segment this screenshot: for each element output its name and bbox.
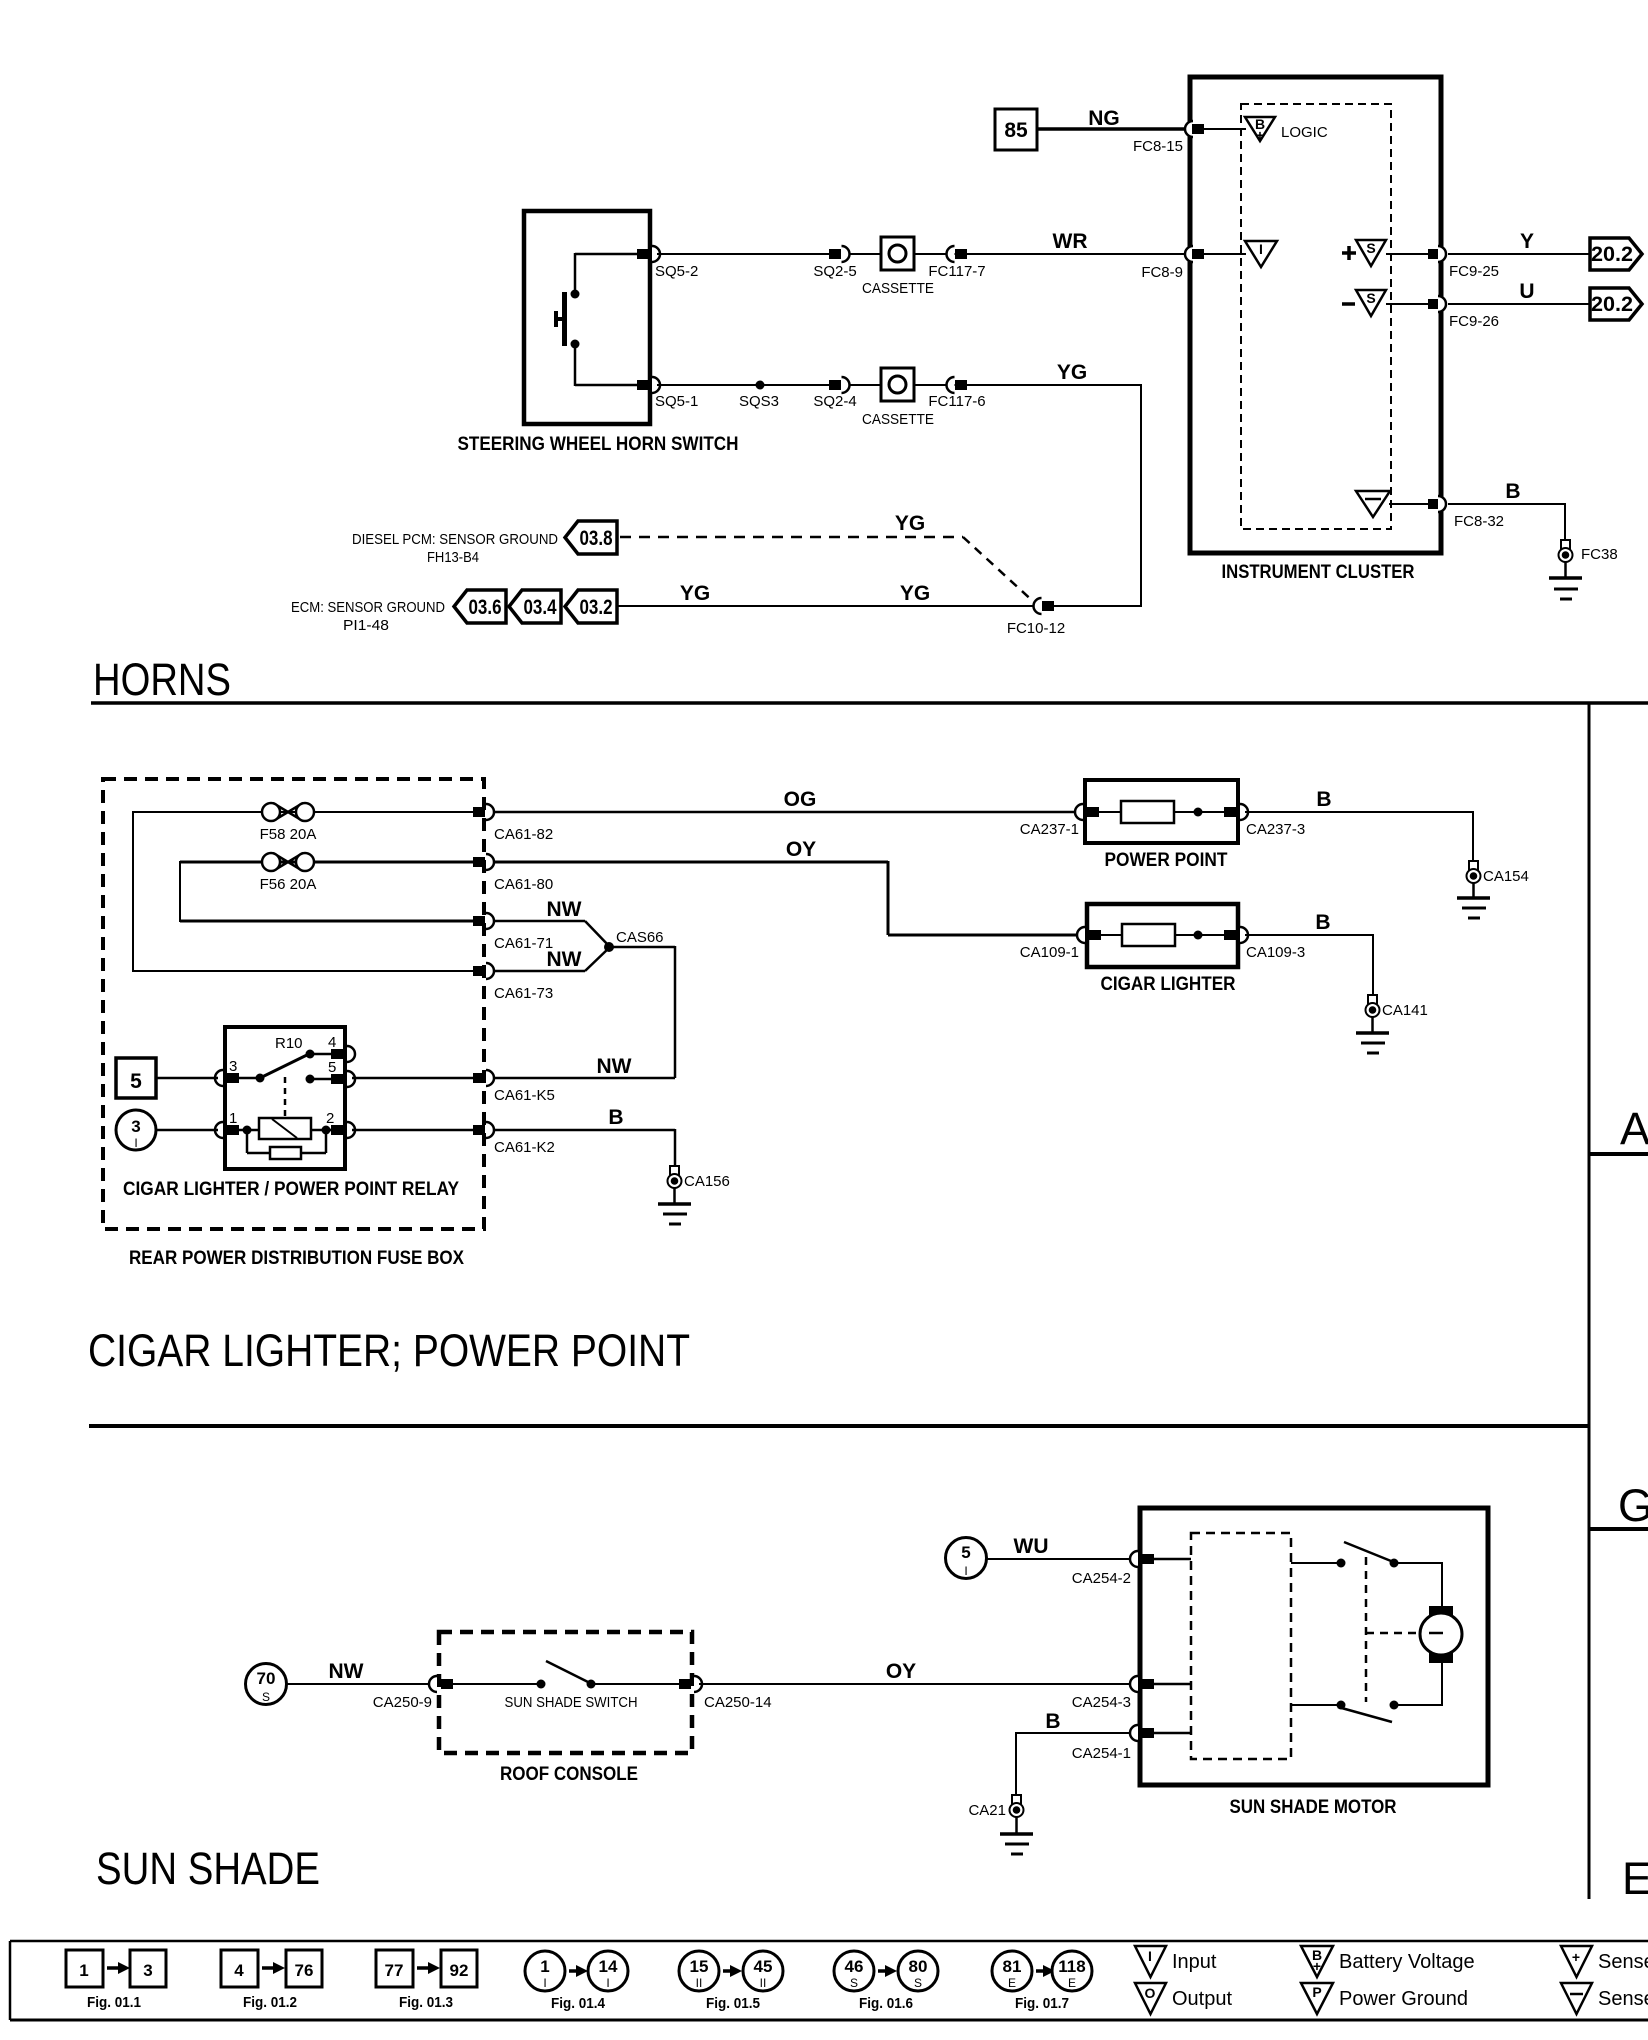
svg-text:80: 80: [909, 1957, 928, 1976]
relay parallel resistor: [247, 1130, 326, 1159]
svg-text:CA237-1: CA237-1: [1020, 821, 1079, 838]
svg-text:Sense: Sense: [1598, 1951, 1648, 1973]
wire FC10-12 to YG riser: [1054, 605, 1141, 607]
svg-text:14: 14: [599, 1957, 618, 1976]
svg-text:YG: YG: [680, 582, 710, 605]
svg-text:B: B: [1505, 480, 1520, 503]
sense minus symbol: [1342, 290, 1386, 316]
wire NW lower to CAS66: [493, 947, 610, 971]
svg-text:20.2: 20.2: [1591, 293, 1633, 316]
motor linkage dashed: [1366, 1557, 1421, 1702]
svg-text:CA250-14: CA250-14: [704, 1694, 772, 1711]
zone label A: [1589, 1103, 1648, 1154]
svg-text:ECM: SENSOR GROUND: ECM: SENSOR GROUND: [291, 599, 445, 616]
svg-text:CASSETTE: CASSETTE: [862, 280, 934, 297]
svg-text:1: 1: [540, 1957, 549, 1976]
steering wheel horn switch box: [524, 211, 650, 424]
pin FC117-7: [928, 246, 985, 280]
relay pin 1: [215, 1110, 259, 1138]
wire YG from 03.2 to FC10-12: [617, 582, 1034, 606]
svg-text:FC8-9: FC8-9: [1141, 264, 1183, 281]
svg-text:STEERING WHEEL HORN SWITCH: STEERING WHEEL HORN SWITCH: [458, 434, 739, 455]
svg-text:YG: YG: [895, 512, 925, 535]
pin CA61-73: [473, 963, 553, 1002]
svg-text:DIESEL PCM: SENSOR GROUND: DIESEL PCM: SENSOR GROUND: [352, 531, 558, 548]
horn switch internal wiring: [575, 253, 638, 386]
svg-text:SUN SHADE SWITCH: SUN SHADE SWITCH: [505, 1694, 638, 1711]
svg-text:E: E: [1008, 1976, 1016, 1990]
wire circle 3 to relay pin 1: [156, 1129, 218, 1132]
svg-text:FC9-25: FC9-25: [1449, 263, 1499, 280]
svg-text:O: O: [1145, 1985, 1156, 2001]
svg-text:Y: Y: [1520, 230, 1534, 253]
svg-text:POWER POINT: POWER POINT: [1105, 850, 1228, 871]
svg-text:CA109-3: CA109-3: [1246, 944, 1305, 961]
svg-text:I: I: [606, 1976, 609, 1990]
wire relay pin 2 to CA61-K2: [352, 1129, 473, 1132]
motor switch lower: [1291, 1656, 1442, 1722]
svg-text:+: +: [1572, 1949, 1580, 1965]
ground eyelet CA141: [1366, 995, 1428, 1019]
sun shade motor box: [1140, 1508, 1488, 1785]
svg-text:CA61-71: CA61-71: [494, 935, 553, 952]
ground CA154: [1457, 883, 1490, 918]
power point element: [1099, 801, 1224, 823]
svg-text:LOGIC: LOGIC: [1281, 124, 1328, 141]
svg-text:4: 4: [328, 1034, 336, 1051]
wire cassette to FC117-7: [914, 253, 955, 255]
roof console box (dashed): [439, 1632, 692, 1753]
svg-text:S: S: [262, 1690, 270, 1704]
pin SQ5-2: [637, 246, 698, 280]
svg-text:CA61-73: CA61-73: [494, 985, 553, 1002]
power point box: [1085, 780, 1238, 843]
svg-text:A: A: [1620, 1103, 1648, 1154]
wire NW to roof console: [287, 1660, 434, 1684]
legend battery voltage symbol: [1301, 1946, 1475, 1977]
legend power ground symbol: [1301, 1983, 1468, 2014]
splice circle 5: [946, 1538, 987, 1579]
svg-text:Fig. 01.5: Fig. 01.5: [706, 1995, 760, 2012]
svg-text:Fig. 01.1: Fig. 01.1: [87, 1994, 141, 2011]
motor internal dashed module: [1191, 1533, 1291, 1759]
right margin border: [1588, 703, 1591, 1899]
svg-text:NW: NW: [597, 1055, 632, 1078]
svg-text:CA61-82: CA61-82: [494, 826, 553, 843]
pin SQ2-5: [813, 246, 856, 280]
wire sense plus to FC9-25: [1386, 253, 1429, 255]
svg-text:FC117-7: FC117-7: [928, 263, 985, 280]
pin FC117-6: [928, 377, 985, 410]
svg-text:SQ5-1: SQ5-1: [655, 393, 698, 410]
motor M: [1420, 1606, 1462, 1663]
svg-text:2: 2: [326, 1110, 334, 1127]
pin CA237-3: [1224, 804, 1305, 838]
svg-text:F56 20A: F56 20A: [260, 876, 317, 893]
splice SQS3: [739, 381, 779, 411]
wire FC8-15 to logic symbol: [1204, 128, 1246, 130]
svg-text:FC38: FC38: [1581, 546, 1618, 563]
wire CAS66 to CA61-K5 net: [609, 946, 675, 1078]
svg-text:F58 20A: F58 20A: [260, 826, 317, 843]
pin CA109-1: [1020, 927, 1101, 961]
off-page arrow 20.2 upper: [1590, 238, 1642, 270]
svg-text:CAS66: CAS66: [616, 929, 664, 946]
wire SQ2-5 to cassette: [849, 253, 881, 255]
pin CA254-3: [1072, 1676, 1154, 1711]
legend fig 01.4: [525, 1951, 628, 2012]
svg-text:FC10-12: FC10-12: [1007, 620, 1065, 637]
legend output symbol: [1135, 1983, 1232, 2014]
svg-text:Fig. 01.6: Fig. 01.6: [859, 1995, 913, 2012]
wires pins to module: [1154, 1559, 1191, 1733]
svg-text:G: G: [1618, 1480, 1648, 1531]
fuse F58 20A: [260, 803, 317, 843]
svg-text:YG: YG: [900, 582, 930, 605]
ground CA156: [658, 1188, 691, 1224]
label diesel pcm sensor ground: [352, 531, 558, 566]
wire NW from CA61-K5: [493, 1055, 675, 1078]
input symbol I: [1245, 241, 1277, 267]
svg-text:Output: Output: [1172, 1988, 1232, 2010]
sense plus symbol: [1342, 240, 1386, 266]
svg-text:4: 4: [234, 1961, 244, 1980]
svg-text:FH13-B4: FH13-B4: [427, 549, 479, 566]
svg-text:B: B: [1045, 1710, 1060, 1733]
ground eyelet CA156: [668, 1166, 730, 1190]
wire B from FC8-32 to FC38: [1448, 480, 1565, 540]
svg-text:R10: R10: [275, 1035, 303, 1052]
pin CA109-3: [1224, 927, 1305, 961]
svg-text:I: I: [1148, 1948, 1152, 1964]
wire fuse feed risers: [133, 811, 180, 972]
svg-text:SQ5-2: SQ5-2: [655, 263, 698, 280]
svg-text:NW: NW: [329, 1660, 364, 1683]
wire NG from 85 to FC8-15: [1037, 107, 1184, 130]
wire YG from FC117-6 down to FC10-12 net: [967, 361, 1141, 607]
svg-text:I: I: [964, 1564, 967, 1578]
ground CA141: [1356, 1017, 1389, 1053]
svg-text:1: 1: [79, 1961, 88, 1980]
section divider 1: [91, 701, 1648, 705]
svg-text:CA254-3: CA254-3: [1072, 1694, 1131, 1711]
svg-text:Fig. 01.4: Fig. 01.4: [551, 1995, 606, 2012]
pin CA250-9: [373, 1676, 453, 1711]
svg-text:1: 1: [229, 1110, 237, 1127]
svg-text:15: 15: [690, 1957, 709, 1976]
svg-text:CA21: CA21: [968, 1802, 1006, 1819]
svg-text:P: P: [1312, 1984, 1321, 2000]
svg-text:II: II: [760, 1976, 767, 1990]
wire CA61-73 row: [133, 970, 473, 972]
rear power distribution fuse box (dashed): [103, 779, 484, 1229]
pin CA61-80: [473, 854, 553, 893]
power ground symbol in cluster: [1356, 491, 1390, 517]
wire Y to 20.2: [1448, 230, 1590, 254]
svg-text:Battery Voltage: Battery Voltage: [1339, 1951, 1475, 1973]
pin CA237-1: [1020, 804, 1099, 838]
motor switch upper: [1291, 1542, 1442, 1613]
svg-text:S: S: [914, 1976, 922, 1990]
dashed wire YG from 03.8 to FC10-12: [620, 512, 1036, 604]
wire ground symbol to FC8-32: [1389, 503, 1429, 505]
svg-text:FC9-26: FC9-26: [1449, 313, 1499, 330]
svg-text:3: 3: [143, 1961, 152, 1980]
svg-text:S: S: [1366, 240, 1375, 256]
relay armature dashed link: [284, 1077, 287, 1117]
svg-text:NW: NW: [547, 898, 582, 921]
splice circle 70: [246, 1664, 287, 1705]
svg-text:SQ2-4: SQ2-4: [813, 393, 856, 410]
svg-text:I: I: [134, 1136, 137, 1150]
splice CAS66: [604, 929, 664, 952]
svg-text:SQ2-5: SQ2-5: [813, 263, 856, 280]
svg-text:+: +: [1256, 127, 1264, 143]
svg-text:Input: Input: [1172, 1951, 1217, 1973]
pin FC8-32: [1428, 496, 1504, 530]
svg-text:OG: OG: [784, 788, 817, 811]
svg-text:3: 3: [131, 1117, 140, 1136]
cassette connector lower: [862, 368, 934, 428]
svg-text:CA250-9: CA250-9: [373, 1694, 432, 1711]
legend fig 01.1: [66, 1950, 166, 2011]
svg-text:PI1-48: PI1-48: [343, 617, 389, 634]
svg-text:OY: OY: [886, 1660, 916, 1683]
svg-text:CIGAR LIGHTER: CIGAR LIGHTER: [1101, 974, 1236, 995]
pin CA61-K2: [473, 1122, 555, 1156]
svg-text:U: U: [1519, 280, 1534, 303]
sun shade switch: [453, 1661, 680, 1711]
pin SQ2-4: [813, 377, 856, 410]
section divider 2: [89, 1424, 1589, 1428]
svg-text:CA109-1: CA109-1: [1020, 944, 1079, 961]
pin FC8-9: [1141, 246, 1204, 281]
svg-text:5: 5: [961, 1543, 970, 1562]
pin CA61-71: [473, 913, 553, 952]
pin CA61-82: [473, 804, 553, 843]
svg-text:FC8-15: FC8-15: [1133, 138, 1183, 155]
wire WU to sun shade motor: [987, 1535, 1134, 1559]
ground CA21: [1000, 1817, 1033, 1854]
svg-text:HORNS: HORNS: [93, 654, 231, 705]
svg-text:Fig. 01.3: Fig. 01.3: [399, 1994, 453, 2011]
relay box R10: [225, 1027, 345, 1169]
svg-text:FC117-6: FC117-6: [928, 393, 985, 410]
svg-text:3: 3: [229, 1058, 237, 1075]
wire SQ5-2 to SQ2-5: [657, 253, 830, 255]
wire NW upper to CAS66: [493, 898, 610, 947]
ground eyelet CA154: [1467, 861, 1529, 885]
pin FC9-25: [1428, 246, 1499, 280]
pin FC8-15: [1133, 121, 1204, 155]
svg-text:CA154: CA154: [1483, 868, 1529, 885]
legend fig 01.2: [221, 1950, 322, 2011]
svg-text:46: 46: [845, 1957, 864, 1976]
cigar lighter element: [1101, 924, 1224, 946]
wire F56 row: [180, 861, 473, 864]
legend fig 01.5: [679, 1951, 783, 2012]
relay switch arm: [239, 1053, 311, 1083]
pin CA254-2: [1072, 1551, 1154, 1587]
svg-text:CA254-2: CA254-2: [1072, 1570, 1131, 1587]
pin CA250-14: [679, 1676, 772, 1711]
cigar lighter box: [1087, 904, 1238, 967]
wire B from CA109-3 to CA141: [1245, 911, 1373, 995]
wire B from CA21 to motor: [1016, 1710, 1134, 1795]
svg-text:CASSETTE: CASSETTE: [862, 411, 934, 428]
svg-text:85: 85: [1004, 119, 1028, 142]
svg-text:E: E: [1068, 1976, 1076, 1990]
wire FC8-9 to input symbol: [1204, 253, 1246, 255]
battery voltage symbol B+ LOGIC: [1245, 116, 1328, 143]
svg-text:B: B: [608, 1106, 623, 1129]
svg-text:II: II: [696, 1976, 703, 1990]
connector box 5: [116, 1058, 156, 1098]
svg-text:CA156: CA156: [684, 1173, 730, 1190]
label ecm sensor ground: [291, 599, 445, 634]
svg-text:5: 5: [328, 1059, 336, 1076]
fuse F56 20A: [260, 853, 317, 893]
pin SQ5-1: [637, 377, 698, 410]
wire OG to power point: [493, 788, 1086, 812]
legend fig 01.3: [376, 1950, 477, 2011]
instrument cluster internal dashed box: [1241, 104, 1391, 529]
svg-text:FC8-32: FC8-32: [1454, 513, 1504, 530]
wire sense minus to FC9-26: [1386, 303, 1429, 305]
svg-text:I: I: [1259, 241, 1263, 257]
wire SQ2-4 to cassette: [849, 384, 881, 386]
svg-text:Power Ground: Power Ground: [1339, 1988, 1468, 2010]
svg-text:45: 45: [754, 1957, 773, 1976]
connector box 85: [995, 109, 1037, 150]
off-page arrow 03.6: [454, 590, 506, 623]
off-page arrow 03.8: [565, 521, 617, 554]
horn push button: [554, 290, 580, 349]
svg-text:WR: WR: [1053, 230, 1088, 253]
relay pin 5: [306, 1059, 356, 1087]
svg-text:S: S: [850, 1976, 858, 1990]
svg-text:+: +: [1313, 1958, 1321, 1974]
svg-text:B: B: [1315, 911, 1330, 934]
relay pin 4: [306, 1034, 356, 1062]
svg-text:ROOF CONSOLE: ROOF CONSOLE: [500, 1764, 638, 1785]
off-page arrow 03.4: [509, 590, 561, 623]
wire CA61-71 row: [180, 920, 473, 923]
svg-text:77: 77: [385, 1961, 404, 1980]
svg-text:WU: WU: [1014, 1535, 1049, 1558]
ground FC38: [1549, 562, 1582, 599]
relay coil: [259, 1118, 311, 1139]
pin CA254-1: [1072, 1725, 1154, 1762]
svg-text:CA61-K2: CA61-K2: [494, 1139, 555, 1156]
svg-text:INSTRUMENT CLUSTER: INSTRUMENT CLUSTER: [1222, 562, 1415, 583]
svg-text:B: B: [1316, 788, 1331, 811]
cassette connector upper: [862, 237, 934, 297]
svg-text:CIGAR LIGHTER / POWER POINT RE: CIGAR LIGHTER / POWER POINT RELAY: [123, 1179, 459, 1200]
svg-text:REAR POWER DISTRIBUTION FUSE B: REAR POWER DISTRIBUTION FUSE BOX: [129, 1248, 464, 1269]
wire F58 row: [133, 811, 473, 813]
svg-text:CA61-K5: CA61-K5: [494, 1087, 555, 1104]
svg-text:Fig. 01.2: Fig. 01.2: [243, 1994, 297, 2011]
svg-text:76: 76: [295, 1961, 314, 1980]
svg-text:S: S: [1366, 290, 1375, 306]
svg-text:CA141: CA141: [1382, 1002, 1428, 1019]
ground eyelet CA21: [968, 1795, 1023, 1819]
legend fig 01.7: [992, 1951, 1092, 2012]
wire U to 20.2: [1448, 280, 1590, 304]
svg-text:SQS3: SQS3: [739, 393, 779, 410]
svg-text:03.6: 03.6: [469, 596, 502, 619]
pin CA61-K5: [473, 1070, 555, 1104]
wire box 5 to relay pin 3: [156, 1077, 218, 1080]
svg-text:03.4: 03.4: [524, 596, 557, 619]
svg-text:20.2: 20.2: [1591, 243, 1633, 266]
svg-text:CIGAR LIGHTER; POWER POINT: CIGAR LIGHTER; POWER POINT: [88, 1325, 690, 1376]
svg-text:Sense: Sense: [1598, 1988, 1648, 2010]
ground eyelet FC38: [1559, 540, 1618, 563]
splice circle 3: [116, 1110, 156, 1150]
svg-text:118: 118: [1058, 1957, 1085, 1976]
wire SQ5-1 to SQ2-4: [657, 384, 830, 386]
svg-text:SUN SHADE: SUN SHADE: [96, 1843, 320, 1894]
instrument cluster box: [1190, 77, 1441, 553]
svg-text:E: E: [1622, 1853, 1648, 1904]
svg-text:03.2: 03.2: [580, 596, 613, 619]
wire B from CA237-3 to CA154: [1245, 788, 1473, 861]
legend fig 01.6: [834, 1951, 938, 2012]
svg-text:OY: OY: [786, 838, 816, 861]
svg-text:CA254-1: CA254-1: [1072, 1745, 1131, 1762]
off-page arrow 20.2 lower: [1590, 288, 1642, 320]
relay pin 3: [215, 1058, 239, 1086]
svg-text:Fig. 01.7: Fig. 01.7: [1015, 1995, 1069, 2012]
pin FC10-12: [1007, 598, 1065, 637]
svg-text:70: 70: [257, 1669, 276, 1688]
svg-text:81: 81: [1003, 1957, 1022, 1976]
svg-text:YG: YG: [1057, 361, 1087, 384]
wire OY to cigar lighter: [493, 838, 1086, 935]
svg-text:03.8: 03.8: [580, 527, 613, 550]
legend sense minus symbol: [1561, 1983, 1648, 2014]
svg-text:NW: NW: [547, 948, 582, 971]
wire relay pin 5 to CA61-K5: [352, 1077, 473, 1080]
wire WR from FC117-7 to FC8-9: [966, 230, 1184, 254]
svg-text:92: 92: [450, 1961, 469, 1980]
legend input symbol: [1135, 1946, 1217, 1977]
svg-text:5: 5: [130, 1070, 142, 1093]
wire OY to sun shade motor: [699, 1660, 1134, 1684]
zone label G: [1589, 1480, 1648, 1531]
relay pin 2: [311, 1110, 355, 1138]
svg-text:CA61-80: CA61-80: [494, 876, 553, 893]
wire B from CA61-K2 to CA156: [493, 1106, 675, 1166]
off-page arrow 03.2: [565, 590, 617, 623]
svg-text:SUN SHADE MOTOR: SUN SHADE MOTOR: [1230, 1797, 1397, 1818]
pin FC9-26: [1428, 296, 1499, 330]
legend border: [10, 1941, 1648, 2020]
svg-text:NG: NG: [1088, 107, 1120, 130]
svg-text:CA237-3: CA237-3: [1246, 821, 1305, 838]
wire cassette to FC117-6: [914, 384, 955, 386]
legend sense plus symbol: [1561, 1946, 1648, 1977]
svg-text:I: I: [543, 1976, 546, 1990]
